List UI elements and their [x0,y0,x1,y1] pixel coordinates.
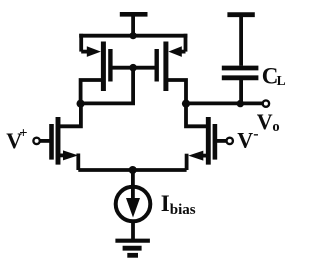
junction: gate wire midpoint [129,64,137,72]
current source Ibias: bottom lead [131,222,135,241]
node B (output node) [182,100,190,108]
label Vo (output) [257,109,280,135]
transistor M1 (left NMOS input) channel bar [56,117,61,165]
junction: tail node [129,166,137,174]
terminal: V+ input open circle [33,138,39,144]
transistor M2 (right NMOS input) gate bar [213,124,218,160]
ground symbol [115,241,149,256]
wire: capacitor bottom lead to output [239,78,243,104]
transistor M4 (right PMOS) channel bar [163,42,168,92]
current source Ibias: circle [116,187,151,222]
svg-text:o: o [272,119,279,135]
transistor M1 (left NMOS input) gate bar [49,124,54,160]
label V+ [6,125,27,153]
wire: node B down to M2 drain [186,104,208,127]
junction: VDD stem to top rail [130,32,137,39]
svg-text:+: + [19,125,27,141]
transistor M2 (right NMOS input) channel bar [206,117,211,165]
wire: M4 drain down to node B [167,80,186,104]
power rail symbol (top right, capacitor top) [227,15,254,66]
node A (left mirror node) [77,100,85,108]
power rail symbol (top center VDD) [120,14,148,36]
transistor M3 (left PMOS) channel bar [101,42,106,92]
current source Ibias: top lead [131,170,135,201]
transistor M1 source lead with arrow down to tail [58,150,78,170]
svg-text:L: L [277,73,286,88]
junction: capacitor bottom lead on output wire [237,100,244,107]
current source Ibias: arrow head (down) [126,198,140,218]
label Ibias (bias current) [161,191,196,218]
svg-text:V: V [257,109,273,134]
wire: diode connection from gates down to node A [81,68,134,104]
svg-text:I: I [161,191,170,216]
transistor M4 (right PMOS) gate bar [154,49,158,82]
transistor M4 (right PMOS) source lead with arrow [168,34,185,57]
transistor M3 (left PMOS) gate bar [108,49,112,82]
label CL (load capacitor) [262,63,286,88]
wire: node A down to M1 drain [58,104,81,127]
wire: tail rail (sources of M1,M2) [78,168,186,172]
terminal: V- input open circle [227,138,233,144]
wire: output wire to terminal [186,102,262,106]
wire: top rail (PMOS sources) [79,34,187,38]
wire: M2 gate lead [215,139,227,143]
capacitor CL: bottom plate [222,75,259,80]
wire: M3 drain down to node A [81,80,102,103]
terminal: output open circle [263,100,269,106]
svg-text:bias: bias [170,202,196,218]
transistor M3 (left PMOS) source lead with arrow [81,34,101,57]
wire: M1 gate lead [40,139,52,143]
wire: gate wire between M3 and M4 gates [110,66,156,70]
label V- [237,126,258,153]
capacitor CL: top plate [222,66,259,71]
transistor M2 source lead with arrow down to tail [187,151,209,170]
svg-text:V: V [237,128,253,153]
